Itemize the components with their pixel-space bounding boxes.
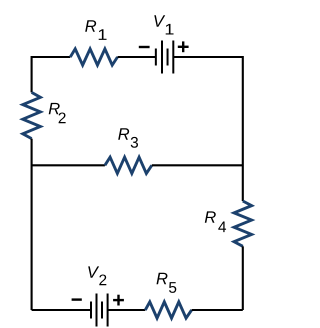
V1 plus sign bbox=[178, 41, 189, 52]
label R5 bbox=[157, 273, 168, 284]
battery V1 bbox=[156, 41, 173, 74]
label V2 bbox=[88, 266, 99, 277]
V2 minus sign bbox=[72, 298, 82, 300]
wire middle-left (left wire to R3) bbox=[32, 164, 105, 166]
wire R3 to right wire bbox=[152, 164, 243, 166]
resistor R1 bbox=[70, 49, 117, 65]
label V1 bbox=[154, 15, 165, 26]
wire R5 to bottom-right corner bbox=[192, 309, 243, 311]
label R1 bbox=[85, 20, 96, 31]
label R3 bbox=[118, 128, 129, 139]
V1 minus sign bbox=[139, 46, 150, 48]
wire V2 to R5 bbox=[108, 309, 146, 311]
wire V1 to top-right corner down to R4 bbox=[173, 57, 243, 201]
wire top-left segment (left wire top + top wire to R1) bbox=[32, 57, 71, 92]
resistor R4 bbox=[234, 201, 252, 246]
label R2 bbox=[49, 103, 60, 114]
resistor R2 bbox=[23, 92, 41, 138]
battery V2 bbox=[91, 294, 108, 327]
V2 plus sign bbox=[113, 295, 124, 306]
wire R2 down left side to bottom-left corner bbox=[31, 139, 33, 310]
label R4 bbox=[205, 211, 216, 222]
resistor R5 bbox=[145, 302, 191, 318]
wire R4 to bottom-right corner bbox=[242, 246, 244, 310]
wire R1 to V1 bbox=[118, 56, 156, 58]
wire bottom-left (left wire to V2) bbox=[32, 309, 91, 311]
resistor R3 bbox=[105, 157, 152, 173]
